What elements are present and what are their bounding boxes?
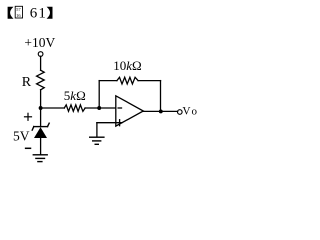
wire feedback right vertical bbox=[160, 81, 162, 112]
wire 5k to op-amp minus input (through node B) bbox=[85, 107, 116, 109]
wire feedback top left bbox=[99, 80, 117, 82]
svg-text:V: V bbox=[182, 106, 191, 118]
wire feedback left vertical bbox=[98, 81, 100, 108]
svg-text:R: R bbox=[22, 75, 32, 90]
wire R to node A bbox=[40, 90, 42, 108]
op-amp plus input wire bbox=[97, 122, 122, 124]
wire zener anode to ground bbox=[40, 138, 42, 154]
svg-text:5kΩ: 5kΩ bbox=[64, 88, 86, 103]
resistor 5k bbox=[64, 105, 85, 111]
svg-text:10kΩ: 10kΩ bbox=[113, 58, 141, 73]
ground op-amp bbox=[90, 137, 104, 144]
label plus bbox=[25, 113, 32, 120]
wire terminal to R bbox=[40, 56, 42, 70]
resistor R bbox=[37, 70, 45, 90]
terminal Vo bbox=[178, 110, 183, 115]
ground zener bbox=[33, 155, 47, 162]
caption bracket right bbox=[47, 7, 53, 19]
node C output junction bbox=[159, 109, 163, 113]
node B junction bbox=[97, 106, 101, 110]
zener diode D1 triangle bbox=[34, 127, 47, 138]
terminal +10V bbox=[38, 52, 43, 57]
op-amp minus sign bbox=[118, 107, 121, 109]
svg-text:16: 16 bbox=[16, 13, 21, 18]
zener diode D1 cathode bar bbox=[32, 123, 49, 130]
op-amp U1 triangle bbox=[116, 96, 144, 126]
resistor 10k feedback bbox=[117, 77, 138, 84]
op-amp plus sign tick bbox=[119, 120, 121, 126]
wire op-amp output bbox=[143, 110, 177, 112]
svg-text:o: o bbox=[192, 106, 198, 118]
svg-text:57: 57 bbox=[16, 7, 21, 12]
wire feedback top right bbox=[138, 80, 160, 82]
svg-text:5V: 5V bbox=[13, 129, 30, 144]
label minus bbox=[26, 147, 31, 149]
wire node A to zener cathode bbox=[40, 108, 42, 127]
caption tofu box (missing CJK glyph) bbox=[15, 6, 22, 18]
svg-text:+10V: +10V bbox=[24, 35, 55, 50]
caption bracket left bbox=[8, 7, 14, 19]
wire node A to 5k resistor bbox=[41, 107, 65, 109]
svg-text:61: 61 bbox=[30, 6, 47, 22]
wire plus input down to ground bbox=[96, 123, 98, 137]
node A junction bbox=[39, 106, 43, 110]
